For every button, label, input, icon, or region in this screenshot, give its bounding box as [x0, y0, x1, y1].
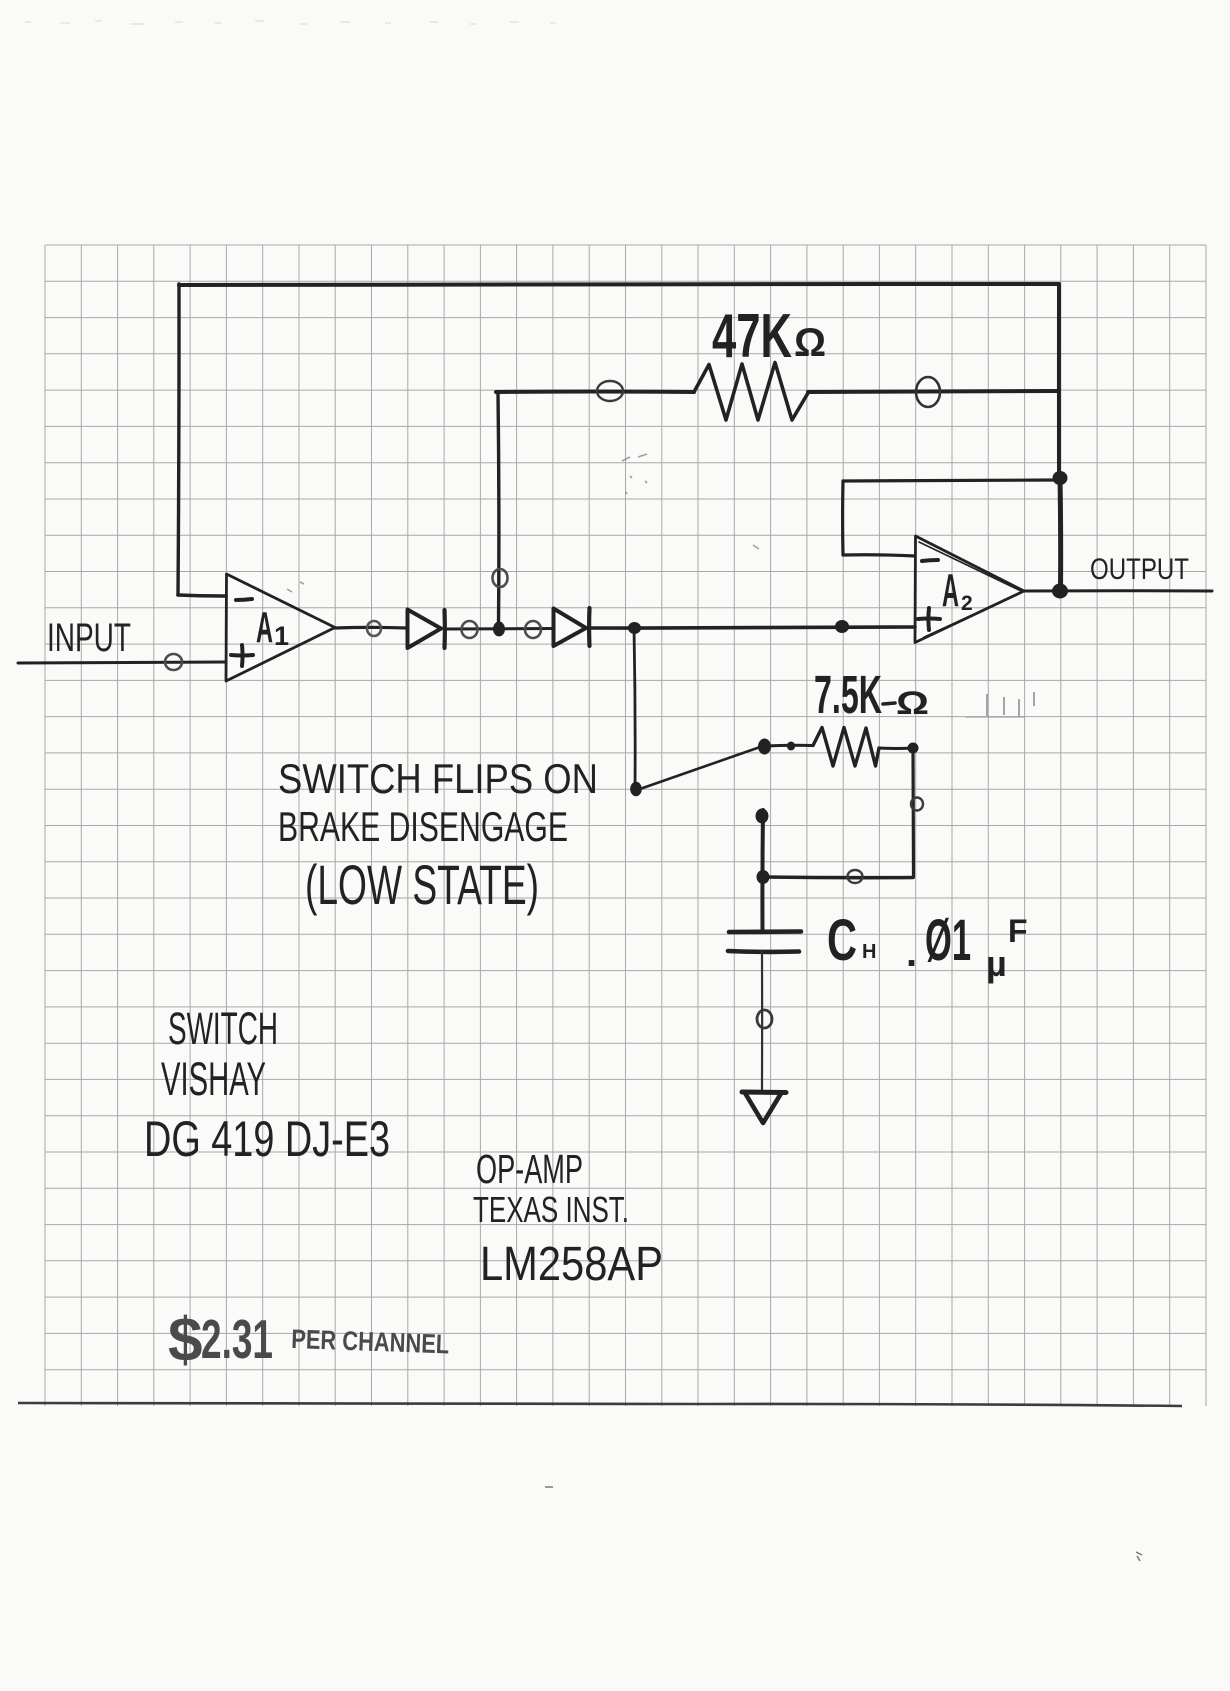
- wire: A1 output: [335, 626, 407, 630]
- node: open circle right of junction: [525, 621, 541, 638]
- svg-text:C: C: [827, 908, 857, 973]
- node: open circle on ground wire: [757, 1010, 772, 1028]
- svg-text:H: H: [862, 941, 876, 963]
- junction: switch branch node: [628, 622, 641, 634]
- capacitor CH: [728, 932, 801, 952]
- node: open circle on bottom horizontal: [848, 870, 863, 883]
- node: open circle on vertical 47K wire: [493, 569, 508, 587]
- junction: small dot on contact wire: [787, 742, 795, 751]
- wire: 7.5K right lead: [879, 747, 913, 750]
- svg-text:PER CHANNEL: PER CHANNEL: [291, 1324, 450, 1359]
- node: open circle on right vertical: [911, 798, 923, 811]
- switch S1 arm (shown open, flips on brake disengage): [637, 746, 763, 790]
- node: open circle on input wire: [165, 654, 182, 670]
- wire: INPUT line to A1 non-inverting input: [18, 662, 226, 663]
- wire: OUTPUT line: [1024, 589, 1212, 592]
- wire: vertical from switch node down to switch pole: [634, 629, 635, 789]
- wire: between D1 and D2: [444, 627, 553, 631]
- wire: switch contact to 7.5K: [765, 744, 813, 748]
- svg-text:.: .: [906, 931, 917, 975]
- svg-text:Ω: Ω: [896, 685, 929, 721]
- svg-text:A: A: [256, 603, 273, 652]
- wire: capacitor branch vertical: [760, 810, 765, 931]
- wire: capacitor to ground: [761, 951, 763, 1090]
- wire: 47K resistor right lead: [808, 391, 1059, 392]
- wire: right side down: [911, 748, 915, 877]
- svg-text:Ω: Ω: [794, 321, 826, 365]
- resistor 47K: [694, 363, 808, 421]
- svg-text:Ø1: Ø1: [925, 908, 971, 973]
- svg-text:INPUT: INPUT: [47, 616, 131, 660]
- wire: feedback from output node along top to A1 inverting input: [178, 284, 1058, 596]
- svg-text:SWITCH: SWITCH: [168, 1003, 278, 1054]
- junction: 7.5K right node: [908, 743, 919, 754]
- svg-text:LM258AP: LM258AP: [480, 1238, 663, 1291]
- wire: bottom horizontal to capacitor branch: [764, 875, 913, 879]
- node: open circle left of junction: [462, 621, 478, 638]
- junction: diode string to 47K feedback: [493, 622, 505, 637]
- junction: capacitor branch / bottom horizontal: [757, 870, 770, 884]
- junction: feedback tap on output vertical: [1053, 471, 1068, 485]
- svg-text:TEXAS INST.: TEXAS INST.: [473, 1189, 629, 1230]
- svg-text:$: $: [168, 1306, 202, 1375]
- diode D1: [408, 610, 445, 649]
- wire: D2 cathode to A2 non-inverting input: [589, 627, 915, 628]
- svg-text:BRAKE DISENGAGE: BRAKE DISENGAGE: [278, 803, 568, 850]
- svg-text:DG 419 DJ-E3: DG 419 DJ-E3: [144, 1111, 390, 1167]
- svg-text:2.31: 2.31: [201, 1308, 273, 1370]
- node: open circle on 47K left lead: [597, 381, 623, 401]
- svg-text:VISHAY: VISHAY: [161, 1052, 266, 1105]
- svg-text:OP-AMP: OP-AMP: [476, 1146, 583, 1192]
- op-amp A2: [915, 536, 1024, 643]
- svg-text:1: 1: [274, 621, 289, 651]
- svg-text:47K: 47K: [712, 302, 792, 371]
- svg-text:2: 2: [961, 592, 973, 615]
- svg-text:OUTPUT: OUTPUT: [1090, 553, 1189, 586]
- wire: right vertical from top wire down to output node: [1059, 284, 1061, 591]
- junction: output node: [1052, 584, 1068, 599]
- svg-text:µ: µ: [986, 943, 1007, 984]
- diode D2: [554, 608, 590, 646]
- junction: A2 plus-input node: [835, 620, 849, 633]
- resistor 7.5K: [813, 728, 879, 767]
- wire: A2 feedback loop to inverting input: [843, 480, 1057, 556]
- wire: 47K resistor left lead: [496, 390, 694, 395]
- svg-text:F: F: [1008, 913, 1028, 949]
- node: open circle after A1 output: [367, 621, 381, 636]
- junction: top of capacitor branch: [756, 809, 769, 824]
- svg-text:7.5K: 7.5K: [814, 665, 882, 725]
- junction: switch throw contact: [758, 739, 771, 755]
- svg-text:SWITCH FLIPS ON: SWITCH FLIPS ON: [278, 755, 598, 802]
- ground: [742, 1090, 786, 1096]
- svg-text:A: A: [942, 564, 959, 616]
- wire: vertical from junction up to 47K resistor: [496, 392, 500, 628]
- node: open circle on 47K right lead: [916, 377, 940, 407]
- junction: switch pole: [630, 782, 642, 796]
- op-amp A1: [226, 574, 335, 681]
- note: price $2.31 per channel: [168, 1306, 450, 1375]
- svg-text:(LOW STATE): (LOW STATE): [305, 853, 539, 916]
